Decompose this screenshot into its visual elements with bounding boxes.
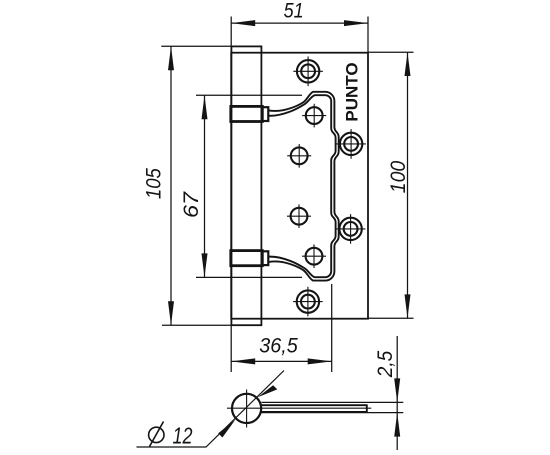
svg-text:51: 51 — [284, 0, 304, 23]
svg-text:105: 105 — [142, 168, 165, 199]
svg-text:12: 12 — [173, 423, 193, 449]
svg-text:100: 100 — [387, 160, 410, 193]
svg-text:67: 67 — [180, 191, 203, 218]
svg-text:36,5: 36,5 — [259, 335, 298, 358]
svg-text:2,5: 2,5 — [374, 350, 397, 378]
svg-text:PUNTO: PUNTO — [343, 62, 362, 121]
